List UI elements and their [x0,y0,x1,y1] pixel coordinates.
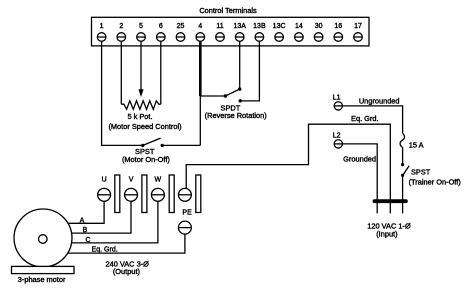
terminal U [98,177,111,202]
terminal 17 [354,23,363,42]
svg-text:Eq. Grd.: Eq. Grd. [92,247,118,254]
svg-text:(Trainer On-Off): (Trainer On-Off) [409,178,461,187]
svg-text:(Motor Speed Control): (Motor Speed Control) [108,122,181,131]
terminal 25 [176,23,185,42]
terminal 5 [137,23,146,42]
control terminal strip TB1 [92,17,370,46]
terminal 16 [334,23,343,42]
svg-text:Grounded: Grounded [343,155,376,164]
terminal 6 [157,23,166,42]
svg-text:5 k Pot.: 5 k Pot. [127,112,152,121]
wire L1 ungrounded to fuse [343,106,403,133]
wire terminal 4 thick drop [199,42,202,96]
terminal 11 [216,23,225,42]
svg-text:14: 14 [295,23,303,30]
terminal W [151,177,164,202]
svg-text:17: 17 [354,23,362,30]
svg-text:L1: L1 [333,95,341,102]
svg-text:Control Terminals: Control Terminals [199,6,257,15]
svg-text:V: V [129,177,134,184]
svg-text:4: 4 [198,23,202,30]
wire terminal 13B to SPDT throw [240,42,259,101]
wire motor lead B [43,200,131,233]
terminal 30 [314,23,323,42]
svg-text:SPST: SPST [411,167,431,176]
switch SPDT reverse rotation [224,87,242,102]
svg-text:C: C [85,237,90,244]
svg-text:A: A [80,217,85,224]
svg-text:(Input): (Input) [376,229,397,238]
svg-text:(Motor On-Off): (Motor On-Off) [122,155,170,164]
switch SPST trainer on-off [401,163,409,177]
svg-text:13B: 13B [253,23,266,30]
barrier 3 [169,175,174,213]
svg-text:5: 5 [139,23,143,30]
svg-text:Ungrounded: Ungrounded [359,97,400,106]
wire equipment ground PE to motor [43,232,185,253]
fuse F1 15 A [400,133,404,147]
svg-text:11: 11 [216,23,223,30]
svg-text:W: W [154,177,161,184]
svg-text:2: 2 [119,23,123,30]
terminal 1 [97,23,106,42]
wire terminal 5 to pot wiper [138,42,143,97]
resistor R1 5 k potentiometer [121,101,161,110]
svg-text:16: 16 [334,23,342,30]
terminal 2 [117,23,126,42]
svg-text:1: 1 [100,23,104,30]
terminal V [125,177,138,202]
svg-text:Eq. Grd.: Eq. Grd. [351,114,379,123]
svg-text:L2: L2 [333,133,341,140]
barrier 4 [196,175,201,213]
svg-text:15 A: 15 A [409,140,424,149]
wire L2 grounded to plug [343,144,377,214]
terminal 13A [233,23,246,42]
terminal PE top [178,188,191,201]
svg-text:3-phase motor: 3-phase motor [18,275,66,284]
terminal 13B [253,23,266,42]
svg-text:(Reverse Rotation): (Reverse Rotation) [205,111,267,120]
svg-text:PE: PE [182,210,192,217]
terminal 4 [196,23,205,42]
wire terminal 1 to SPST motor on-off [102,42,143,146]
svg-text:U: U [102,177,107,184]
svg-text:6: 6 [159,23,163,30]
plug bar 120 VAC input [375,199,406,203]
wire terminal 4 down to SPST [199,96,201,145]
wire fuse to switch [402,148,404,165]
wire equipment ground run to plug [186,124,390,213]
wire terminal 2 to pot left [120,42,122,104]
svg-text:(Output): (Output) [113,267,140,276]
switch SPST motor on-off [141,138,200,147]
svg-text:13C: 13C [273,23,286,30]
wire motor lead A [43,200,104,223]
3-phase motor M1 [12,209,75,274]
wire motor lead C [43,200,158,243]
barrier 1 [115,175,120,213]
terminal 14 [295,23,304,42]
svg-text:13A: 13A [233,23,246,30]
wire terminal 13A to SPDT throw [239,42,241,89]
wire junction to SPDT common [200,95,225,97]
barrier 2 [142,175,147,213]
terminal 13C [273,23,286,42]
svg-text:25: 25 [177,23,185,30]
wire switch to plug [402,175,404,213]
wire terminal 6 to pot right [160,42,162,104]
terminal L2 [334,140,342,148]
terminal PE ground [178,221,191,234]
terminal L1 [334,102,342,110]
svg-text:30: 30 [315,23,323,30]
svg-text:B: B [83,227,88,234]
